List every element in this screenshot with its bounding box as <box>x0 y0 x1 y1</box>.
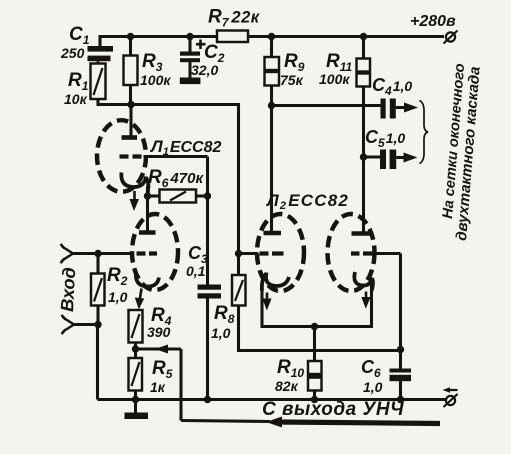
wire R6 right lead <box>196 194 208 197</box>
wire cathode join U of V2a V2b <box>262 282 372 327</box>
tube V2a cathode arrow <box>262 293 271 311</box>
node dot rail R11 <box>360 33 367 40</box>
small arrow above bottom terminal <box>443 387 458 393</box>
tube V1a cathode arrow <box>130 191 140 211</box>
resistor R3 <box>124 56 138 86</box>
node dot R4 R5 feedback <box>132 345 139 352</box>
node dot input top R2 <box>94 250 101 257</box>
wire R11 bottom lead crossing C4 wire <box>362 86 365 157</box>
wire R2 top lead <box>96 254 99 274</box>
svg-text:0,1: 0,1 <box>186 263 206 279</box>
svg-text:1к: 1к <box>150 379 166 395</box>
input terminal fork 2 <box>62 315 75 334</box>
wire C3 bottom to bottom rail <box>206 299 209 400</box>
tube V1b envelope <box>132 214 178 290</box>
wire input lower drop to bottom rail <box>96 325 99 400</box>
arrow output C5 <box>396 153 417 163</box>
wire feedback horizontal to R4 R5 junction <box>136 347 182 350</box>
wire plate lead tube V2a <box>270 106 273 235</box>
node dot input bottom R2 <box>94 321 101 328</box>
terminal bottom right <box>444 394 458 407</box>
brace bracket <box>420 101 429 164</box>
svg-text:1,0: 1,0 <box>363 379 383 395</box>
wire bottom rail <box>98 398 447 401</box>
wire C2 bottom lead <box>188 61 191 78</box>
wire R9 bottom lead <box>270 86 273 106</box>
capacitor C4 <box>381 99 396 119</box>
plus sign of C2 <box>196 40 206 50</box>
tube V2b cathode tail <box>372 279 373 292</box>
resistor R2 <box>91 274 105 306</box>
wire node A: R1 bottom to R3 bottom to vertical down to grid of V2a <box>98 99 239 254</box>
wire cathode node to R10 <box>313 327 316 362</box>
wire feedback vertical drop <box>179 349 182 421</box>
resistor R6 <box>160 190 197 203</box>
node dot rail R5 <box>132 396 139 403</box>
wire input terminal 1 to grid of V1b <box>73 252 133 255</box>
tube V2b plate <box>352 231 371 236</box>
svg-text:10к: 10к <box>64 91 88 107</box>
ground symbol below R5 <box>125 413 149 420</box>
svg-text:R722к: R722к <box>208 7 261 30</box>
svg-text:Л2ECC82: Л2ECC82 <box>265 191 349 212</box>
wire R6 left lead <box>148 194 160 197</box>
svg-text:32,0: 32,0 <box>191 62 218 78</box>
resistor R11 <box>357 59 371 87</box>
wire C5 node to C5 plates <box>364 155 381 158</box>
tube V1b grid <box>137 251 158 255</box>
node dot R3 bottom plate V1a <box>127 101 134 108</box>
capacitor C3 <box>198 285 222 299</box>
wire plate lead tube V1a <box>129 105 132 140</box>
arrow output C4 <box>396 103 418 113</box>
svg-text:Вход: Вход <box>57 267 79 312</box>
wire feedback bottom run thin part <box>181 421 270 422</box>
tube V2a cathode <box>266 273 289 287</box>
svg-text:100к: 100к <box>319 71 350 87</box>
tube V2a plate <box>264 231 282 236</box>
wire R9 bottom to C4 <box>272 104 382 107</box>
wire R8 top lead <box>237 254 240 276</box>
capacitor C5 <box>380 150 396 170</box>
node dot rail R9 <box>268 33 275 40</box>
tube V2b envelope <box>328 214 375 291</box>
resistor R1 <box>91 64 106 100</box>
tube V2a cathode tail <box>262 274 267 292</box>
svg-text:1,0: 1,0 <box>211 325 231 341</box>
node dot rail C2 <box>186 33 193 40</box>
resistor R4 <box>129 310 143 343</box>
wire R4 R5 junction <box>134 343 137 359</box>
resistor R5 <box>129 358 143 391</box>
tube V1b cathode <box>136 273 159 287</box>
wire R8 bottom to C6 node <box>239 306 401 351</box>
svg-text:75к: 75к <box>280 72 304 88</box>
node dot rail C6 <box>397 396 404 403</box>
node dot rail R10 <box>311 396 318 403</box>
resistor R8 <box>232 275 246 306</box>
svg-text:100к: 100к <box>140 72 171 88</box>
arrowhead feedback left <box>155 345 168 354</box>
input terminal fork 1 <box>61 244 74 263</box>
resistor R7 <box>217 31 248 43</box>
wire R9 top lead <box>270 37 273 58</box>
tube V2b cathode <box>354 272 372 286</box>
svg-text:1,0: 1,0 <box>108 289 128 305</box>
wire R3 bottom lead <box>129 85 132 105</box>
node dot C5 R11 <box>360 153 367 160</box>
wire grid V2b to right vertical <box>375 254 401 350</box>
wire input terminal 2 to R2 bottom <box>74 306 98 325</box>
terminal top right <box>444 31 458 44</box>
tube V1a plate <box>122 135 138 140</box>
tube V1a envelope <box>97 120 146 192</box>
tube V2b grid <box>351 251 375 255</box>
wire R11 top lead <box>362 37 365 59</box>
node dot grid V2a R8 <box>235 250 242 257</box>
capacitor C1 <box>88 46 114 64</box>
resistor R10 <box>308 361 322 391</box>
capacitor C6 electrolytic <box>390 369 412 382</box>
wire C6 top lead <box>399 350 402 370</box>
wire R10 bottom lead <box>313 391 316 400</box>
resistor R9 <box>265 57 280 86</box>
wire node A to grid of tube V2a <box>239 252 259 255</box>
svg-text:+280в: +280в <box>410 13 456 30</box>
svg-text:R6470к: R6470к <box>148 167 204 190</box>
tube V2a grid <box>260 251 284 255</box>
svg-text:Л1ECC82: Л1ECC82 <box>149 137 221 158</box>
tube V2b cathode arrow <box>361 292 370 309</box>
node dot rail C3 <box>204 396 211 403</box>
capacitor C2 electrolytic <box>180 52 201 85</box>
arrowhead feedback bottom pointing left <box>266 417 282 428</box>
tube V2a envelope <box>257 214 304 291</box>
tube V1b cathode lead arrow to R4 <box>135 289 144 310</box>
wire feedback bottom thick bar <box>280 422 440 424</box>
svg-text:390: 390 <box>147 324 171 340</box>
tube V1a cathode tail <box>146 178 148 197</box>
svg-text:250: 250 <box>60 45 85 61</box>
node dot cathode join R10 <box>311 323 318 330</box>
node dot C6 R8 grid <box>397 346 404 353</box>
tube V1a cathode <box>121 173 146 188</box>
tube V1b plate <box>139 230 156 235</box>
node dot rail R3 <box>127 33 134 40</box>
node dot R9 bottom plate V2a <box>268 102 275 109</box>
wire V1a cathode down to V1b plate <box>146 186 149 233</box>
wire plate lead tube V2b <box>362 157 365 235</box>
svg-text:82к: 82к <box>275 378 299 394</box>
wire top rail left segment <box>100 37 217 48</box>
tube V1a grid <box>120 154 142 158</box>
node dot R6 right <box>204 192 211 199</box>
wire R5 bottom to ground <box>134 391 137 413</box>
wire grid V1a to R6 right vertical down to C3 <box>144 157 208 286</box>
wire top rail right segment <box>248 35 444 38</box>
node dot cathode V1a R6 left <box>144 192 151 199</box>
wire R3 top lead <box>129 37 132 56</box>
svg-text:С выхода УНЧ: С выхода УНЧ <box>262 399 404 420</box>
wire C2 top lead <box>188 37 191 53</box>
wire C6 bottom lead <box>399 381 402 400</box>
